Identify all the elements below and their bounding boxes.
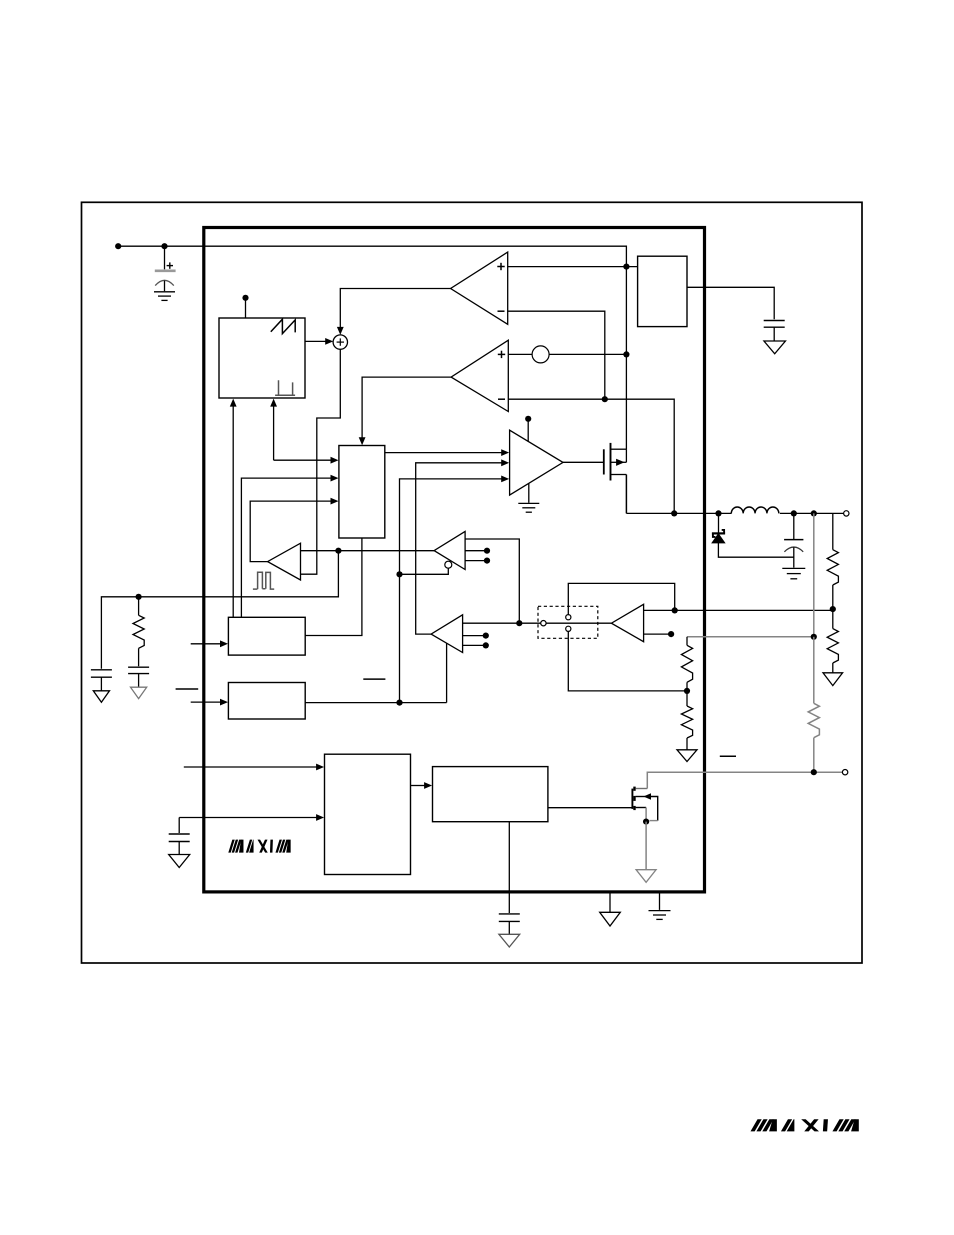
wire A3 output to one-shot <box>301 550 435 552</box>
ground triangle below R3 <box>677 750 697 762</box>
inductor L1 <box>731 507 779 513</box>
switch throw top open circle <box>566 615 571 620</box>
page outer border <box>82 202 863 963</box>
wire driver ground stem <box>528 483 530 502</box>
resistor R1 comp <box>133 597 144 666</box>
wire A5 apex to switch pole <box>546 622 611 624</box>
wire A5 loop to switch top throw <box>568 583 674 614</box>
wire comparator1 inverting input <box>508 311 605 399</box>
bubble on A3 output <box>445 561 452 568</box>
wire comparator2 output to PWM logic <box>359 377 451 445</box>
wire A4 reference stub 2 <box>463 642 489 648</box>
oscillator box <box>219 318 305 398</box>
node dot secondary sense at VOUT <box>811 510 817 516</box>
node dot comparator2 input on VDD column <box>623 351 629 357</box>
wire oscillator top stub <box>245 299 247 318</box>
wire GND pin stub 1 <box>609 892 611 912</box>
wire gray column to resistor <box>813 637 815 704</box>
ground triangle below C6 <box>169 855 190 868</box>
ground triangle below R6 <box>823 673 843 686</box>
diode D1 schottky catch <box>712 513 794 557</box>
control box A <box>228 617 305 655</box>
wire below C2 <box>773 327 775 341</box>
wire inductor to VOUT terminal <box>780 512 844 514</box>
wire box B output bus <box>305 702 446 704</box>
resistor R4 secondary (gray) <box>808 703 819 737</box>
wire oscillator feedback 1 <box>230 399 237 618</box>
ground triangle below C2 <box>764 341 786 354</box>
ground triangle at GND pin 1 <box>600 912 621 926</box>
wire below C4 <box>100 677 102 691</box>
capacitor C3 output electrolytic <box>784 513 803 567</box>
capacitor C6 at pin 2 <box>169 834 190 842</box>
wire box C to box D <box>411 782 433 789</box>
resistor R3 internal bottom <box>681 691 692 738</box>
wire Q2 source to ground (gray) <box>645 808 647 822</box>
control box B <box>228 683 305 720</box>
comparator A4 error (points left) <box>431 615 463 653</box>
node dot at external comp resistor <box>136 594 142 600</box>
node dot output capacitor <box>791 510 797 516</box>
resistor R6 feedback bottom <box>827 609 838 663</box>
op-amp comparator A2 (points left) <box>451 340 508 411</box>
wire R3 to ground <box>686 738 688 750</box>
wire comparator2 inverting input to switch node <box>508 399 674 511</box>
wire driver top stub <box>527 421 529 442</box>
comparator A3 PFM (points left, inverted output) <box>434 531 465 569</box>
wire A3 top input <box>465 539 519 623</box>
wire below C6 <box>178 842 180 855</box>
node dot R4 at OUT2 line <box>811 769 817 775</box>
pin name overbar at OUT2 <box>720 755 736 757</box>
ground earth at GND pin 2 <box>649 911 671 920</box>
wire pin input 1 to box C <box>184 764 324 771</box>
wire oscillator output to summer <box>305 338 333 345</box>
ground earth below C3 <box>782 568 805 578</box>
switch pole open circle <box>541 621 546 626</box>
terminal VOUT open circle <box>844 511 849 516</box>
wire Q2 drain to OUT2 (gray) <box>647 772 842 788</box>
wire driver output to Q1 gate <box>563 461 604 463</box>
ground triangle below C5 <box>131 687 147 698</box>
node dot feedback tap <box>830 606 836 612</box>
wire comparator1 output to summer <box>337 289 451 335</box>
logic box D <box>433 767 548 822</box>
reference box <box>638 256 687 326</box>
wire Q-bus vertical to driver input 3 <box>400 476 510 703</box>
capacitor C7 below IC <box>499 914 520 922</box>
wire comparator2 noninverting input with offset source <box>508 346 626 363</box>
one-shot buffer triangle (points left) <box>268 543 301 580</box>
wire Q2 source dot to ground triangle (gray) <box>645 822 647 870</box>
wire A3 reference stub 2 <box>465 558 490 564</box>
capacitor C1 input electrolytic <box>155 246 176 291</box>
ground triangle below Q2 (gray) <box>636 870 656 883</box>
summing junction <box>333 335 347 349</box>
wire external cap at pin 2 <box>178 818 180 834</box>
wire R4 to OUT2 line (gray) <box>813 738 815 773</box>
wire R6 to ground <box>832 663 834 673</box>
node dot comparator1 input on VDD column <box>623 264 629 270</box>
wire A5 top input to external FB divider <box>644 609 833 611</box>
switch throw bottom open circle <box>566 626 571 631</box>
wire A3 reference stub 1 <box>465 548 490 554</box>
wire secondary sense column (gray) <box>813 513 815 636</box>
transistor Q1 high-side MOSFET <box>604 443 627 514</box>
ground earth below driver <box>518 503 539 512</box>
node dot box B output on Q-bus <box>396 700 402 706</box>
wire feedback divider from VOUT <box>832 513 834 549</box>
node dot diode at switch node <box>715 510 721 516</box>
pin name overbar mid <box>363 678 385 680</box>
terminal OUT2 open circle <box>842 770 847 775</box>
wire pin input to box A <box>191 640 228 647</box>
wire below C7 <box>508 921 510 934</box>
node dot internal divider tap <box>684 682 690 694</box>
MAXIM logo page footer <box>751 1119 859 1131</box>
wire A3 bubble output down to Q-bus <box>400 568 449 574</box>
ground triangle below C4 <box>93 691 109 702</box>
wire A4 reference stub 1 <box>463 633 489 639</box>
wire A5 lower stub <box>644 631 675 637</box>
resistor R5 feedback top <box>827 550 838 585</box>
resistor R2 internal top <box>681 637 692 683</box>
node dot A5 feedback loop <box>672 607 678 613</box>
IC boundary box U1 <box>204 228 705 892</box>
node dot comparator1/2 inverting junction <box>602 396 608 402</box>
wire box D bottom to external cap <box>508 822 510 913</box>
wire one-shot output to PWM input 3 <box>250 498 338 562</box>
wire PWM input 0 from divider <box>270 399 338 464</box>
wire A4 output to driver input 2 <box>416 459 510 634</box>
node dot A3 input joins A4 input <box>516 620 522 626</box>
ground triangle below C7 <box>499 934 520 947</box>
logic box C <box>325 754 411 874</box>
wire VIN rail to internal VDD column <box>118 246 626 449</box>
wire internal divider top (gray) to secondary column <box>687 636 814 638</box>
wire reference output to bypass cap <box>687 287 774 319</box>
mux comparator A5 (points left) <box>611 604 643 641</box>
PWM logic box <box>339 446 385 539</box>
wire R5 to tap <box>832 585 834 609</box>
wire pin input 2 to box C <box>179 814 324 821</box>
capacitor C5 comp right <box>128 667 149 673</box>
double pulse glyph at one-shot <box>253 572 274 589</box>
node dot Q2 source-body tie <box>643 819 649 825</box>
pin name overbar at box B input <box>176 688 199 690</box>
switch dashed box <box>538 606 598 638</box>
node VIN terminal dot <box>115 243 121 249</box>
wire A4 top input to mux pole <box>463 622 541 624</box>
node dot COMP tap <box>335 548 341 554</box>
wire switch node to inductor <box>626 512 731 514</box>
wire oscillator feedback 2 and PWM input 1 <box>241 475 338 618</box>
sawtooth waveform glyph in oscillator <box>271 319 295 333</box>
node dot on oscillator top stub <box>242 295 248 301</box>
wire pin input to box B <box>191 699 228 706</box>
driver amplifier triangle (points right) <box>510 430 563 495</box>
pulse waveform glyph in oscillator <box>275 380 295 395</box>
ground earth below C1 <box>154 292 175 301</box>
wire box D output to Q2 gate <box>548 807 632 809</box>
MAXIM logo inside IC <box>228 840 290 853</box>
wire A4 sense from low-battery box <box>446 643 448 702</box>
wire PWM output to driver input 1 <box>385 449 509 456</box>
op-amp comparator A1 (points left) <box>451 252 508 324</box>
wire box A output to PWM logic bottom <box>305 538 362 636</box>
capacitor C2 reference bypass <box>764 321 785 328</box>
transistor Q2 low-side MOSFET <box>632 787 657 821</box>
wire switch bottom throw to internal divider tap <box>568 631 687 691</box>
capacitor C4 comp left <box>91 670 112 677</box>
wire COMP pin from A3 tap to external network <box>101 551 338 669</box>
node dot secondary column at gray feedback <box>811 634 817 640</box>
wire GND pin stub 2 <box>659 892 661 910</box>
wire below C5 <box>138 674 140 688</box>
wire summer output to one-shot lower input <box>301 349 341 574</box>
node dot bubble line on Q-bus <box>396 571 402 577</box>
node VIN junction dot at input cap <box>161 243 167 249</box>
wire comparator1 noninverting input <box>508 266 638 268</box>
node dot comparator feedback at switch node <box>671 510 677 516</box>
node dot on driver top stub <box>525 416 531 422</box>
